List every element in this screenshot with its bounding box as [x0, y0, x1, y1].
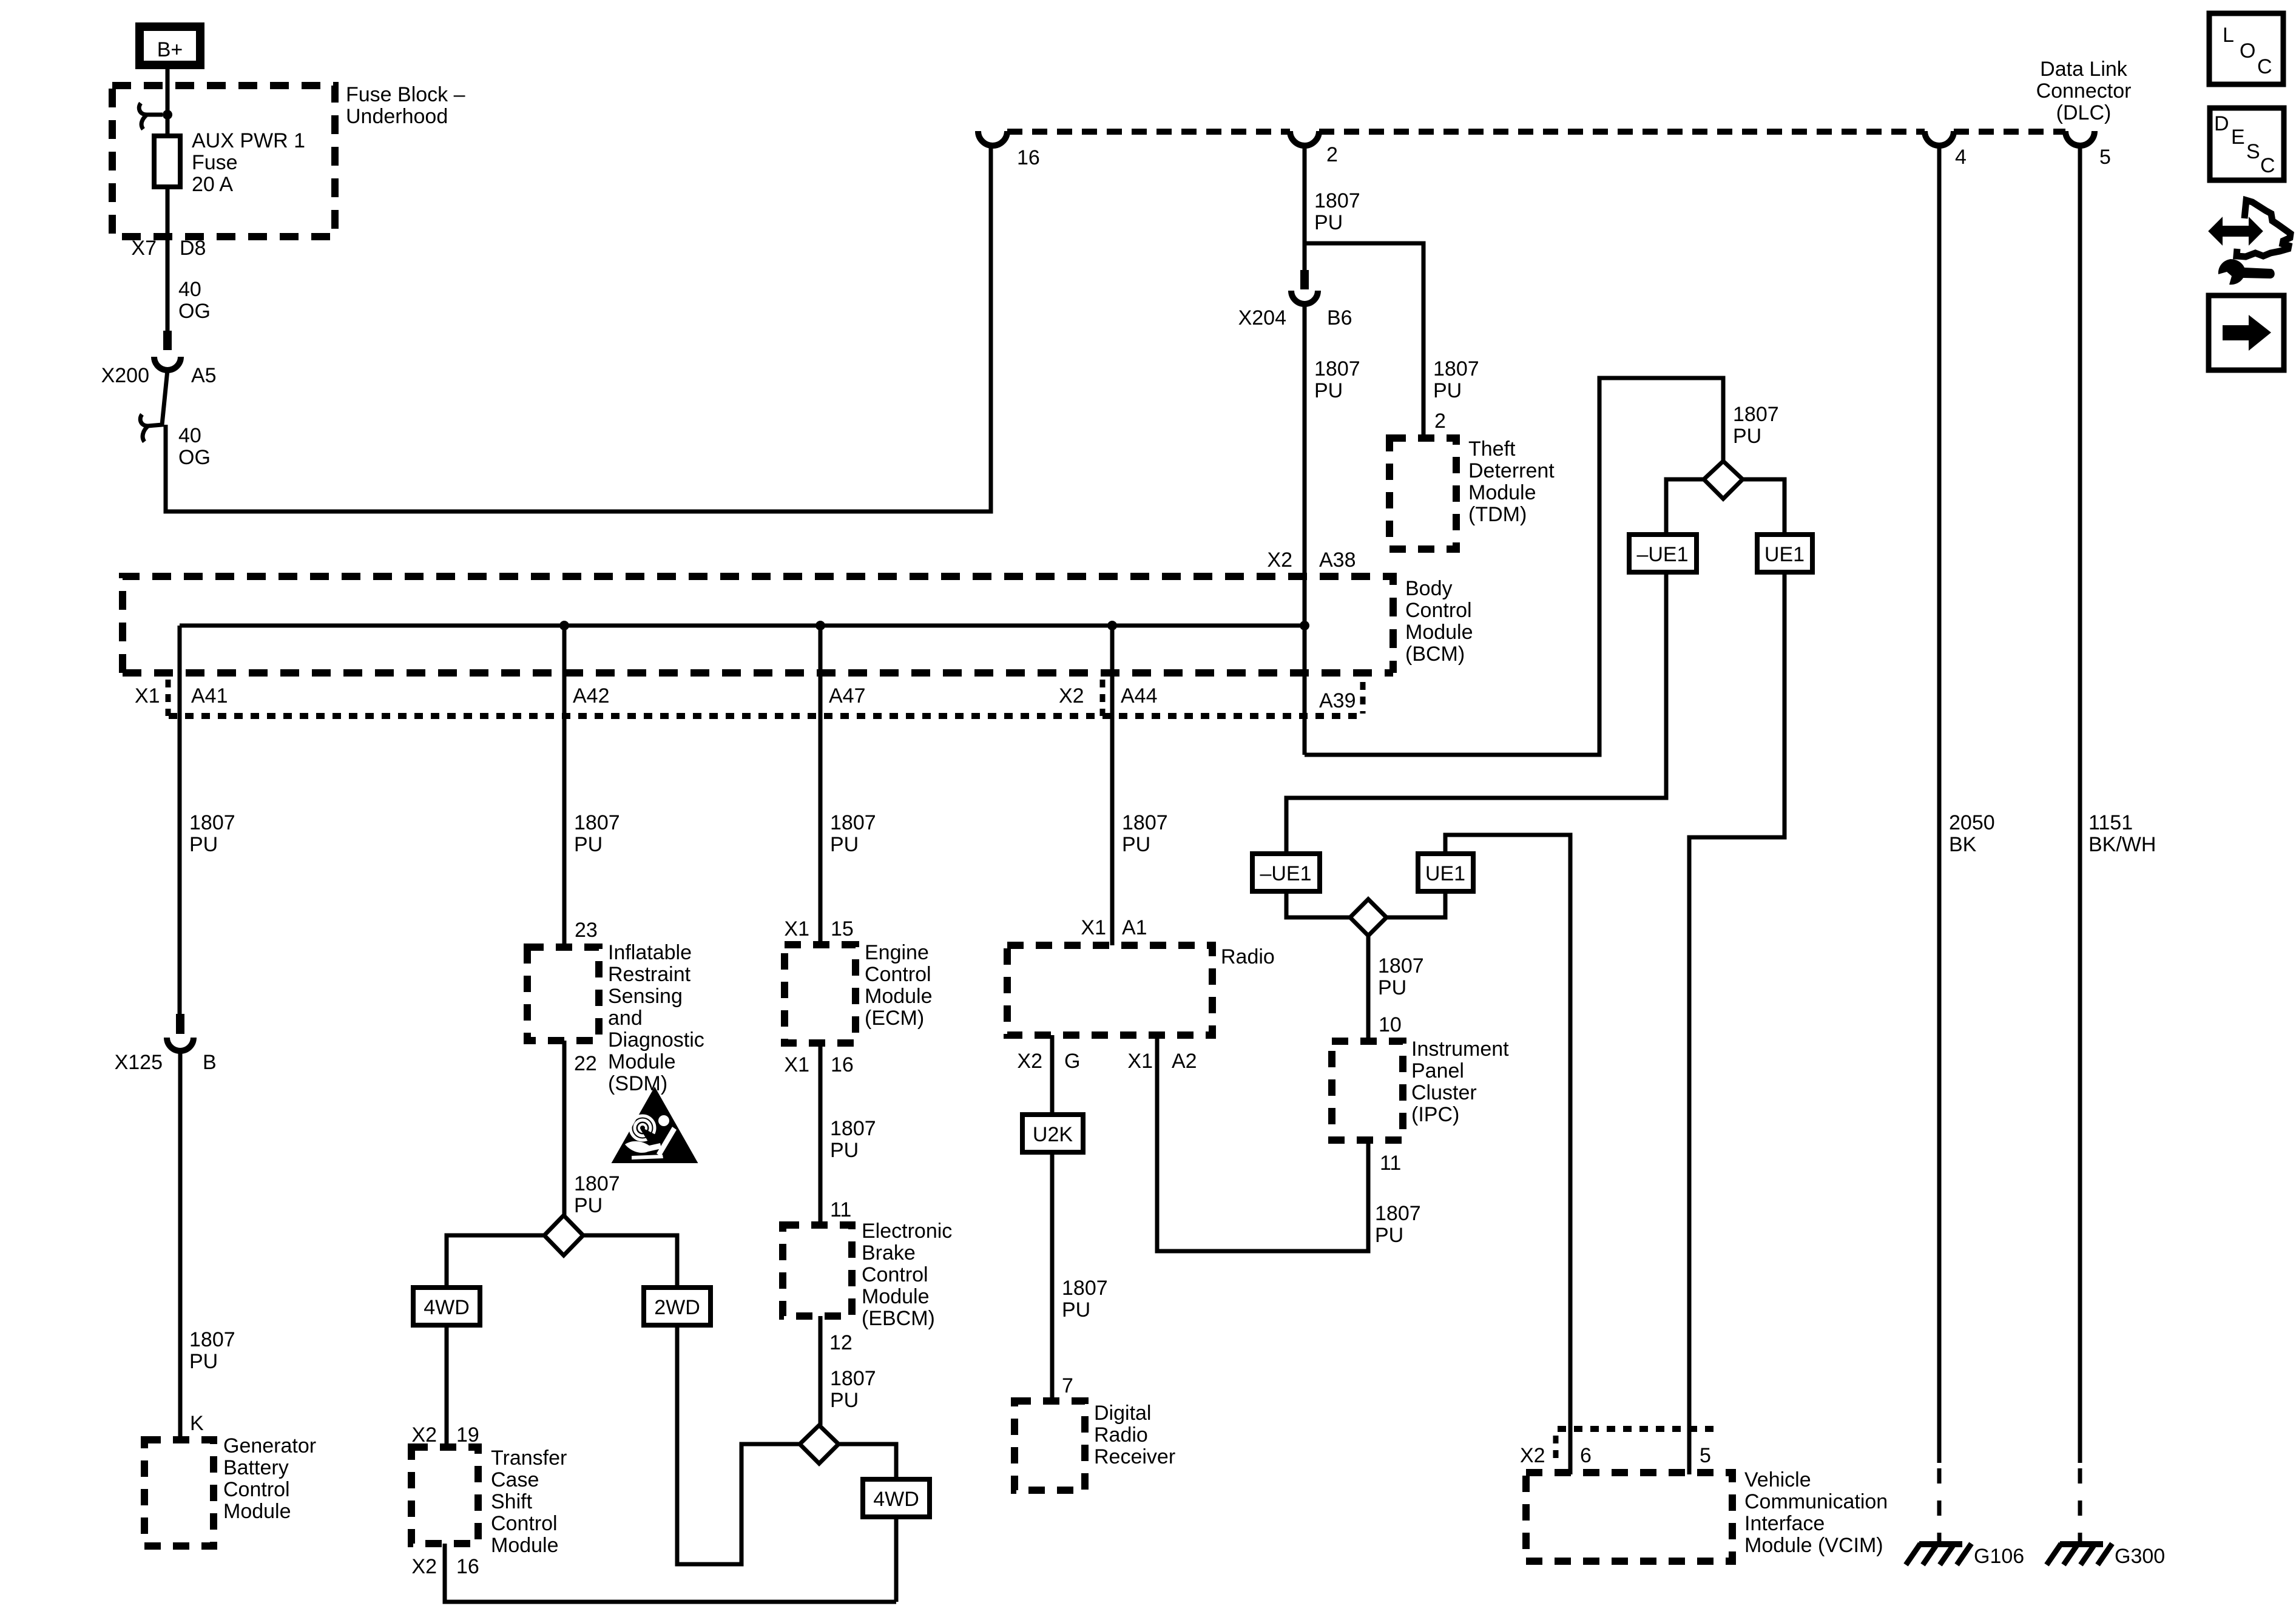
Electronic Brake Control Module dashed box [783, 1225, 852, 1316]
splice diamond lower UE1 [1350, 899, 1386, 936]
wire diamond to 4WD lower [839, 1444, 896, 1479]
connector X204 stub pin [1303, 243, 1307, 270]
svg-text:Battery: Battery [223, 1456, 289, 1479]
svg-text:O: O [2240, 39, 2255, 62]
svg-text:Brake: Brake [862, 1241, 916, 1264]
svg-text:PU: PU [1314, 211, 1343, 234]
svg-text:–UE1: –UE1 [1260, 862, 1311, 885]
4WD option box lower [863, 1479, 930, 1517]
svg-text:B6: B6 [1327, 306, 1352, 329]
splice diamond upper UE1 [1704, 461, 1743, 499]
X204 B6 labels [1238, 306, 1352, 329]
wire DLC pin 5 to G300 [2078, 146, 2082, 1463]
SDM label [608, 941, 704, 1095]
svg-text:PU: PU [1122, 833, 1150, 856]
wire UE1 upper to VCIM pin 5 [1689, 572, 1784, 1474]
X1 15 labels [784, 917, 853, 940]
svg-text:(IPC): (IPC) [1411, 1103, 1459, 1126]
svg-text:1807: 1807 [574, 1172, 620, 1195]
svg-text:19: 19 [456, 1423, 479, 1447]
svg-text:(ECM): (ECM) [865, 1007, 924, 1030]
X2 A38 labels [1267, 549, 1356, 572]
Body Control Module dashed box [123, 576, 1393, 673]
junction dot A42 [559, 621, 569, 630]
svg-text:Vehicle: Vehicle [1744, 1468, 1811, 1491]
svg-text:PU: PU [189, 833, 218, 856]
wire label 1807 PU A39 diamond [1733, 403, 1779, 448]
-UE1 option box upper [1629, 535, 1697, 572]
wire label 1807 PU EBCM [830, 1367, 876, 1412]
svg-text:D: D [2214, 112, 2229, 135]
wire Transfer Case pin 16 bottom run [445, 1544, 896, 1602]
wire diamond to 2WD right [583, 1235, 677, 1288]
svg-text:12: 12 [829, 1331, 853, 1354]
wire A47 from bus down to ECM [819, 626, 823, 945]
DLC pin 4 cup [1925, 131, 1954, 146]
svg-text:Electronic: Electronic [862, 1220, 952, 1243]
svg-text:X2: X2 [1017, 1050, 1042, 1073]
svg-text:BK: BK [1949, 833, 1977, 856]
svg-text:PU: PU [830, 1389, 859, 1412]
svg-text:A47: A47 [829, 684, 866, 707]
svg-text:4WD: 4WD [424, 1296, 470, 1319]
wire BCM A39 loop up to splice diamond [1305, 378, 1723, 755]
svg-text:Control: Control [1405, 599, 1472, 622]
ground G300 [2047, 1544, 2165, 1568]
svg-text:A2: A2 [1172, 1050, 1197, 1073]
svg-text:Module: Module [608, 1050, 676, 1073]
wire SDM pin 22 to splice diamond [562, 1041, 567, 1215]
svg-text:1807: 1807 [189, 1328, 235, 1351]
svg-text:B+: B+ [157, 38, 183, 61]
svg-text:PU: PU [1378, 976, 1406, 999]
svg-text:B: B [203, 1051, 217, 1074]
svg-text:40: 40 [178, 424, 201, 447]
svg-text:G: G [1064, 1050, 1080, 1073]
UE1 option box lower [1418, 854, 1473, 891]
wire label 1807 PU A44 [1122, 811, 1168, 856]
svg-text:Module: Module [865, 985, 933, 1008]
wire label 1807 PU to A38 [1314, 357, 1360, 402]
VCIM strip labels X2 6 5 [1520, 1444, 1711, 1467]
IPC label [1411, 1038, 1509, 1126]
Inflatable Restraint SDM dashed box [527, 947, 599, 1041]
Transfer Case Shift Control Module dashed box [411, 1447, 478, 1544]
wire label 1807 PU IPC10 [1378, 954, 1424, 999]
Vehicle Communication Interface Module dashed box [1526, 1473, 1732, 1561]
svg-text:C: C [2257, 55, 2272, 78]
X1 16 labels [784, 1053, 853, 1076]
wire A42 from bus down to SDM [562, 626, 567, 947]
VCIM strip separator [1553, 1436, 1559, 1465]
svg-text:5: 5 [2099, 146, 2111, 169]
Radio dashed box [1007, 945, 1212, 1035]
BCM label [1405, 577, 1473, 666]
wire label 40 OG lower [178, 424, 211, 469]
wire dashed segment to G106 [1937, 1468, 1942, 1544]
svg-text:(DLC): (DLC) [2056, 101, 2112, 124]
strip labels [135, 684, 1356, 712]
wire label 1807 PU ECM-EBCM [830, 1117, 876, 1162]
svg-text:Instrument: Instrument [1411, 1038, 1509, 1061]
DLC pin 5 cup [2065, 131, 2095, 146]
svg-text:16: 16 [1017, 146, 1040, 169]
svg-text:Shift: Shift [491, 1490, 533, 1513]
wire 2WD to EBCM diamond [677, 1325, 800, 1564]
svg-text:OG: OG [178, 446, 211, 469]
wire label 1807 PU GBCM [189, 1328, 235, 1373]
svg-text:L: L [2223, 24, 2234, 47]
svg-text:X1: X1 [784, 1053, 809, 1076]
wire label 2050 BK [1949, 811, 1995, 856]
svg-text:X1: X1 [784, 917, 809, 940]
DESC legend box [2210, 108, 2284, 180]
svg-text:X200: X200 [101, 364, 149, 387]
svg-text:20 A: 20 A [192, 173, 233, 196]
svg-text:Theft: Theft [1468, 437, 1516, 461]
svg-text:UE1: UE1 [1764, 543, 1805, 566]
svg-text:1807: 1807 [1314, 357, 1360, 380]
svg-text:1807: 1807 [1433, 357, 1479, 380]
svg-text:(TDM): (TDM) [1468, 503, 1527, 526]
wire label 1807 PU A41 [189, 811, 235, 856]
svg-text:1807: 1807 [1375, 1202, 1421, 1225]
wire label 1807 PU A42 [574, 811, 620, 856]
svg-text:1807: 1807 [189, 811, 235, 834]
svg-text:X2: X2 [411, 1555, 437, 1578]
Fuse Block - Underhood dashed box [112, 86, 335, 237]
svg-text:Diagnostic: Diagnostic [608, 1028, 704, 1052]
wire A44 from bus down to Radio [1110, 626, 1115, 945]
svg-text:Generator: Generator [223, 1434, 316, 1457]
TCSCM label [491, 1447, 567, 1557]
DLC pin 2 cup [1290, 131, 1319, 146]
svg-text:Module: Module [1468, 481, 1536, 504]
wire X200 down with hook branch [148, 370, 167, 426]
svg-text:E: E [2231, 126, 2245, 149]
LOC legend box [2209, 13, 2283, 84]
X200 A5 labels [101, 364, 217, 387]
BCM connector strip bottom dashed line [169, 713, 1362, 719]
svg-text:U2K: U2K [1033, 1123, 1073, 1146]
svg-text:1151: 1151 [2088, 811, 2133, 834]
wire A41 from bus down to X125 [178, 626, 182, 1014]
svg-text:UE1: UE1 [1425, 862, 1465, 885]
strip separator X1 [166, 680, 171, 716]
svg-text:Module: Module [491, 1534, 559, 1557]
wire label 1807 PU TDM branch [1433, 357, 1479, 402]
svg-text:PU: PU [1314, 379, 1343, 402]
svg-text:Control: Control [491, 1512, 558, 1535]
wire diamond to IPC pin 10 [1366, 936, 1371, 1042]
svg-text:1807: 1807 [830, 1367, 876, 1390]
wire label 1807 PU SDM [574, 1172, 620, 1217]
svg-text:G300: G300 [2115, 1545, 2165, 1568]
svg-text:16: 16 [456, 1555, 479, 1578]
VCIM connector strip dotted line [1558, 1426, 1720, 1432]
svg-text:2: 2 [1434, 410, 1446, 433]
svg-text:Interface: Interface [1744, 1512, 1825, 1535]
X2 19 labels [411, 1423, 479, 1447]
svg-text:X2: X2 [1267, 549, 1292, 572]
svg-text:OG: OG [178, 300, 211, 323]
svg-text:Module (VCIM): Module (VCIM) [1744, 1534, 1883, 1557]
wire EBCM pin 12 to diamond [819, 1316, 823, 1425]
svg-text:Inflatable: Inflatable [608, 941, 692, 964]
wire label 40 OG upper [178, 278, 211, 323]
svg-text:PU: PU [574, 833, 603, 856]
svg-text:G106: G106 [1974, 1545, 2024, 1568]
svg-text:23: 23 [575, 919, 598, 942]
connector X200 stub pin [163, 331, 172, 350]
wire -UE1 lower to diamond [1286, 891, 1350, 917]
safety triangle SIR caution [613, 1089, 696, 1162]
svg-text:Transfer: Transfer [491, 1447, 567, 1470]
svg-text:1807: 1807 [1733, 403, 1779, 426]
VCIM label [1744, 1468, 1888, 1557]
svg-text:Fuse: Fuse [192, 151, 238, 174]
svg-text:A42: A42 [573, 684, 610, 707]
connector X125 stub pin [176, 1014, 184, 1034]
wire A5 down, right, up to DLC pin 16 [166, 146, 991, 511]
svg-text:X2: X2 [1520, 1444, 1545, 1467]
wire DLC pin 4 to G106 [1937, 146, 1942, 1463]
svg-text:Communication: Communication [1744, 1490, 1888, 1513]
svg-text:Restraint: Restraint [608, 963, 691, 986]
connector X204 cup [1291, 291, 1318, 304]
Theft Deterrent Module dashed box [1389, 438, 1456, 549]
4WD option box left [413, 1288, 480, 1325]
svg-text:5: 5 [1700, 1444, 1711, 1467]
wire B+ to fuse [166, 66, 170, 137]
junction dot A47 [815, 621, 825, 630]
X125 B labels [115, 1051, 217, 1074]
Digital Radio Receiver dashed box [1015, 1401, 1085, 1490]
svg-text:10: 10 [1379, 1013, 1402, 1036]
wire X125 to GBCM [178, 1051, 183, 1441]
wire X204 to BCM A38 [1303, 304, 1307, 755]
svg-text:Sensing: Sensing [608, 985, 683, 1008]
svg-text:X1: X1 [1127, 1050, 1153, 1073]
GBCM label [223, 1434, 316, 1523]
svg-text:Digital: Digital [1094, 1402, 1151, 1425]
wire label 1151 BK/WH [2088, 811, 2156, 856]
svg-text:Cluster: Cluster [1411, 1081, 1477, 1104]
wire UE1 lower to diamond [1386, 891, 1445, 917]
wire fuse to X200 [166, 187, 170, 331]
svg-text:Engine: Engine [865, 941, 929, 964]
Data Link Connector dashed line [1007, 129, 1290, 135]
junction dot A38/A39 [1300, 621, 1309, 630]
svg-text:2050: 2050 [1949, 811, 1995, 834]
svg-text:Connector: Connector [2036, 79, 2132, 103]
DRR label [1094, 1402, 1175, 1468]
svg-text:1807: 1807 [1062, 1277, 1108, 1300]
hook terminal below X200 [140, 414, 148, 442]
Engine Control Module dashed box [785, 945, 856, 1043]
svg-text:and: and [608, 1007, 643, 1030]
fuse AUX PWR 1 20A [154, 129, 305, 196]
wire ECM to EBCM [819, 1043, 823, 1225]
svg-text:Underhood: Underhood [346, 105, 448, 128]
svg-text:7: 7 [1062, 1374, 1073, 1397]
junction dot at fuse feed [163, 110, 172, 120]
svg-text:A5: A5 [191, 364, 217, 387]
svg-text:1807: 1807 [1314, 189, 1360, 212]
wire 4WD lower to bottom run [894, 1517, 899, 1602]
svg-text:11: 11 [1380, 1152, 1401, 1175]
wire -UE1 upper to -UE1 lower [1286, 572, 1666, 854]
splice diamond SDM branch [544, 1215, 583, 1255]
wire label 1807 PU DRR [1062, 1277, 1108, 1322]
svg-text:22: 22 [574, 1052, 597, 1075]
svg-text:X2: X2 [1059, 684, 1084, 707]
wire Radio A2 to IPC pin 11 [1157, 1035, 1368, 1251]
svg-text:X1: X1 [1081, 916, 1106, 939]
wire Radio G to U2K [1050, 1035, 1055, 1115]
svg-text:1807: 1807 [574, 811, 620, 834]
TDM label [1468, 437, 1555, 526]
connector X125 cup [167, 1038, 194, 1051]
svg-text:(SDM): (SDM) [608, 1072, 667, 1095]
svg-text:Panel: Panel [1411, 1059, 1464, 1082]
svg-text:Control: Control [865, 963, 931, 986]
svg-text:AUX PWR 1: AUX PWR 1 [192, 129, 305, 152]
splice diamond EBCM branch [800, 1425, 839, 1463]
wire label 1807 PU pin2 [1314, 189, 1360, 234]
next page arrow box [2209, 295, 2284, 370]
svg-text:A1: A1 [1122, 916, 1147, 939]
hook terminal at fuse feed [139, 103, 163, 129]
strip separator X2 [1100, 680, 1106, 716]
X1 A2 labels [1127, 1050, 1197, 1073]
svg-text:6: 6 [1580, 1444, 1592, 1467]
wire 4WD to Transfer Case pin 19 [445, 1325, 449, 1447]
svg-text:PU: PU [574, 1194, 603, 1217]
svg-text:PU: PU [830, 833, 859, 856]
2WD option box [644, 1288, 711, 1325]
svg-text:2: 2 [1326, 143, 1338, 166]
diagnostic tool icon double arrow and wrench [2210, 200, 2291, 285]
Generator Battery Control Module dashed box [144, 1440, 214, 1546]
svg-text:C: C [2260, 154, 2275, 177]
junction dot A44 [1107, 621, 1117, 630]
Fuse Block label [346, 83, 465, 128]
svg-text:K: K [190, 1412, 204, 1435]
DLC pin 16 cup [978, 131, 1007, 146]
wire DLC pin2 down to X204 junction [1303, 146, 1307, 243]
svg-text:A39: A39 [1319, 689, 1356, 712]
wire UE1 lower top to VCIM pin 6 [1445, 835, 1570, 1474]
svg-text:PU: PU [830, 1139, 859, 1162]
svg-text:PU: PU [1433, 379, 1462, 402]
-UE1 option box lower [1252, 854, 1320, 891]
X2 G labels [1017, 1050, 1080, 1073]
svg-text:A38: A38 [1319, 549, 1356, 572]
svg-text:1807: 1807 [1378, 954, 1424, 977]
svg-text:S: S [2246, 140, 2260, 163]
svg-text:Case: Case [491, 1468, 539, 1491]
svg-text:1807: 1807 [1122, 811, 1168, 834]
wire dashed segment to G300 [2078, 1468, 2082, 1544]
svg-text:Module: Module [862, 1285, 930, 1308]
connector X7 D8 labels [131, 237, 206, 260]
UE1 option box upper [1757, 535, 1812, 572]
svg-text:Fuse Block –: Fuse Block – [346, 83, 465, 106]
svg-text:15: 15 [831, 917, 854, 940]
B+ power symbol box [140, 27, 200, 65]
wire label 1807 PU IPC11 [1375, 1202, 1421, 1247]
svg-text:Deterrent: Deterrent [1468, 459, 1555, 482]
wire diamond to 4WD left [447, 1235, 544, 1288]
svg-text:(EBCM): (EBCM) [862, 1307, 935, 1330]
EBCM label [862, 1220, 952, 1330]
branch wire to TDM [1305, 243, 1423, 438]
svg-text:(BCM): (BCM) [1405, 643, 1465, 666]
svg-text:Control: Control [223, 1478, 290, 1501]
Instrument Panel Cluster dashed box [1332, 1041, 1403, 1140]
ECM label [865, 941, 933, 1030]
svg-text:4: 4 [1955, 146, 1967, 169]
strip right-end vertical at A39 [1360, 682, 1366, 714]
U2K option box [1022, 1115, 1083, 1152]
svg-text:A41: A41 [191, 684, 228, 707]
svg-text:1807: 1807 [830, 1117, 876, 1140]
svg-text:Body: Body [1405, 577, 1453, 600]
svg-text:BK/WH: BK/WH [2088, 833, 2156, 856]
svg-text:PU: PU [1062, 1298, 1090, 1322]
svg-text:11: 11 [830, 1198, 851, 1221]
svg-text:A44: A44 [1121, 684, 1158, 707]
svg-text:Module: Module [223, 1500, 291, 1523]
wire diamond to -UE1 upper [1666, 479, 1704, 535]
wire label 1807 PU A47 [830, 811, 876, 856]
BCM internal bus wire [180, 624, 1305, 628]
svg-text:1807: 1807 [830, 811, 876, 834]
svg-text:Control: Control [862, 1263, 928, 1286]
svg-text:X125: X125 [115, 1051, 163, 1074]
wire U2K to Digital Radio Receiver [1050, 1152, 1055, 1402]
DLC label [2036, 58, 2132, 124]
svg-text:2WD: 2WD [654, 1296, 700, 1319]
svg-text:–UE1: –UE1 [1636, 543, 1688, 566]
svg-text:Receiver: Receiver [1094, 1445, 1175, 1468]
ground G106 [1906, 1544, 2024, 1568]
svg-text:X204: X204 [1238, 306, 1286, 329]
svg-text:PU: PU [1733, 425, 1761, 448]
svg-text:X7: X7 [131, 237, 157, 260]
svg-text:X2: X2 [411, 1423, 437, 1447]
svg-text:D8: D8 [180, 237, 206, 260]
svg-text:Data Link: Data Link [2040, 58, 2128, 81]
svg-text:X1: X1 [135, 684, 160, 707]
svg-text:16: 16 [831, 1053, 854, 1076]
svg-text:Module: Module [1405, 621, 1473, 644]
svg-text:Radio: Radio [1094, 1423, 1148, 1447]
connector X200 cup [154, 357, 181, 370]
X2 16 labels [411, 1555, 479, 1578]
wire diamond to UE1 upper [1743, 479, 1784, 535]
svg-text:4WD: 4WD [873, 1488, 919, 1511]
X1 A1 labels [1081, 916, 1147, 939]
svg-text:40: 40 [178, 278, 201, 301]
svg-text:PU: PU [189, 1350, 218, 1373]
svg-text:Radio: Radio [1221, 945, 1275, 968]
svg-text:PU: PU [1375, 1224, 1403, 1247]
